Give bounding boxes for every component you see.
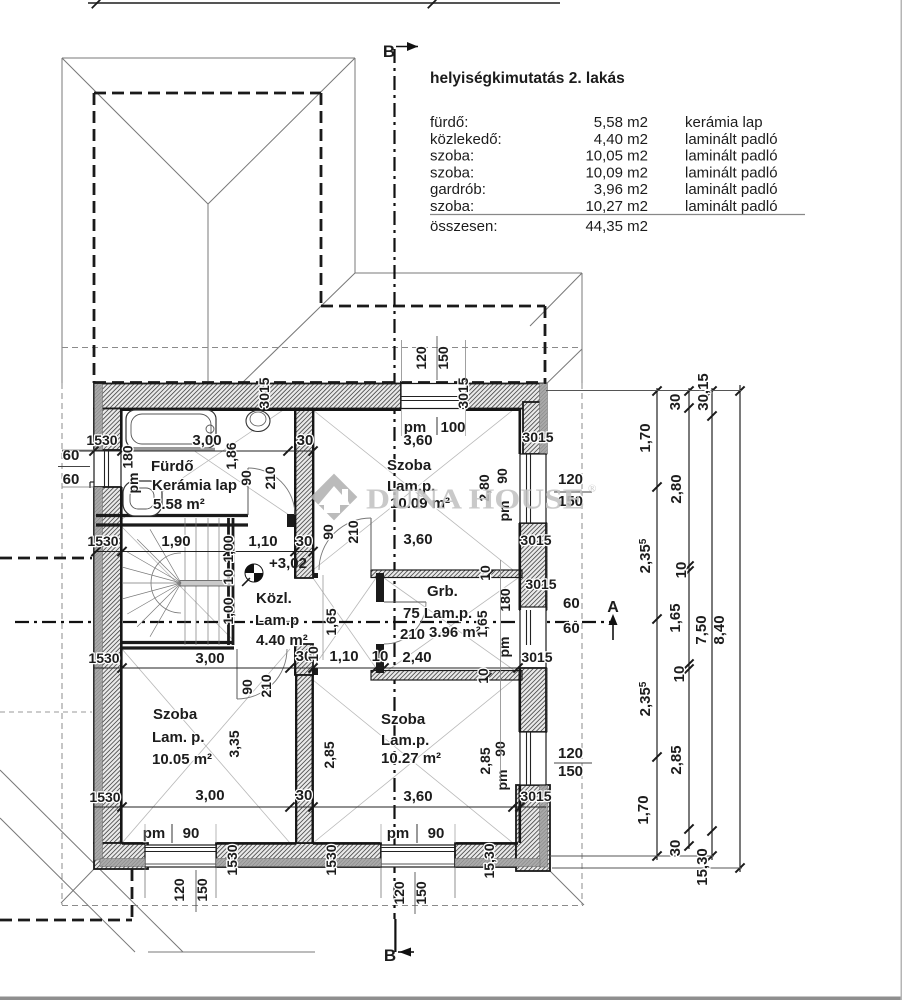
- lower-floor dashed outline along top wall: [94, 381, 546, 384]
- svg-text:pm: pm: [494, 770, 510, 791]
- dim 10 rotated wardrobe top: [477, 565, 494, 581]
- svg-text:4,40 m2: 4,40 m2: [594, 131, 648, 148]
- room label Grb: [403, 583, 481, 641]
- watermark diamond logo: [311, 474, 358, 521]
- svg-text:3,60: 3,60: [403, 432, 432, 449]
- outer wall left upper: [94, 409, 121, 451]
- interior wall corridor east lower piece: [295, 644, 313, 675]
- svg-text:15,30: 15,30: [481, 843, 497, 878]
- svg-text:3,60: 3,60: [403, 788, 432, 805]
- dim 120 150 rotated below window SW: [171, 870, 210, 912]
- svg-text:3015: 3015: [522, 429, 553, 445]
- svg-text:®: ®: [588, 483, 596, 495]
- left margin dashed line: [0, 711, 92, 713]
- interior wall jamb corridor SE: [313, 668, 318, 675]
- stairs with winders: [122, 518, 234, 645]
- section marker B bottom: [384, 919, 414, 965]
- svg-text:Kerámia lap: Kerámia lap: [152, 477, 237, 494]
- svg-text:Lam.p.: Lam.p.: [381, 732, 429, 749]
- roof hip SW corner diagonal: [61, 869, 94, 903]
- svg-text:10: 10: [220, 569, 236, 585]
- svg-text:3,00: 3,00: [195, 787, 224, 804]
- dim row4 texts: [89, 787, 551, 805]
- right scan edge: [901, 0, 902, 1000]
- svg-text:10.05 m²: 10.05 m²: [152, 751, 212, 768]
- dim line row1: [62, 446, 318, 455]
- svg-text:Szoba: Szoba: [381, 711, 426, 728]
- roof east wing right eave dashed: [581, 383, 583, 905]
- svg-text:2,85: 2,85: [321, 741, 337, 768]
- svg-text:150: 150: [558, 763, 583, 780]
- svg-text:5.58 m²: 5.58 m²: [153, 496, 205, 513]
- insulation strip bottom wall2: [100, 859, 540, 867]
- partition bathroom south double line: [96, 516, 248, 526]
- svg-text:1,65: 1,65: [667, 603, 684, 632]
- svg-text:90: 90: [492, 741, 508, 757]
- roof east wing top eave: [355, 272, 582, 274]
- svg-text:60: 60: [563, 595, 580, 612]
- dim row3 texts: [88, 648, 552, 667]
- wall inner face right: [518, 409, 521, 843]
- dim pm rotated bathroom: [125, 473, 141, 494]
- bathtub: [126, 410, 216, 450]
- svg-text:2,80: 2,80: [668, 474, 685, 503]
- svg-text:1,65: 1,65: [323, 608, 339, 635]
- wall faces bathroom east: [295, 409, 313, 579]
- svg-text:10,05 m2: 10,05 m2: [585, 148, 648, 165]
- section line A-A horizontal: [15, 621, 613, 623]
- window bottom SE (pm 90): [381, 845, 455, 867]
- svg-text:30: 30: [296, 533, 313, 550]
- outer wall bottom east segment: [455, 843, 516, 867]
- dim 3015 rotated top wall west: [256, 377, 272, 408]
- svg-text:3015: 3015: [455, 377, 471, 408]
- svg-text:1,86: 1,86: [223, 442, 239, 469]
- lower-floor dashed outline top-left: [94, 92, 321, 95]
- svg-text:1530: 1530: [87, 533, 118, 549]
- roof neighbour wing diagonal 2: [0, 818, 135, 952]
- svg-text:3,00: 3,00: [192, 432, 221, 449]
- roof ridge vertical: [207, 204, 209, 381]
- dim pm rotated window SE: [494, 770, 510, 791]
- svg-text:90: 90: [239, 679, 255, 695]
- dim 120 150 rotated above top window: [402, 336, 466, 382]
- window left (bathroom) opening: [90, 450, 121, 488]
- svg-text:10: 10: [671, 666, 688, 683]
- lower-floor dashed outline SW vertical: [131, 869, 134, 920]
- svg-text:180: 180: [497, 588, 513, 612]
- svg-text:60: 60: [63, 471, 80, 488]
- dim 90 210 door bathroom: [238, 466, 278, 490]
- partition jamb bath door east: [287, 514, 295, 527]
- svg-text:30: 30: [296, 787, 313, 804]
- insulation strip left wall: [95, 384, 103, 861]
- roof hip NW diagonal: [62, 58, 208, 204]
- svg-text:DUNA HOUSE: DUNA HOUSE: [366, 485, 585, 516]
- svg-text:2,85: 2,85: [477, 747, 493, 774]
- svg-text:Fürdő: Fürdő: [151, 458, 194, 475]
- washbasin: [123, 481, 162, 516]
- svg-text:laminált padló: laminált padló: [685, 148, 778, 165]
- svg-text:210: 210: [258, 674, 274, 698]
- chain C texts: [693, 373, 712, 886]
- svg-text:90: 90: [238, 470, 254, 486]
- svg-text:Szoba: Szoba: [153, 706, 198, 723]
- dim 1,65 rotated corridor: [323, 608, 339, 635]
- dim 1530 rotated bottom wall 3: [481, 843, 497, 878]
- partition wardrobe south: [371, 671, 522, 681]
- svg-text:1,65: 1,65: [474, 610, 490, 637]
- room label Fürdő: [151, 458, 237, 513]
- svg-text:1,10: 1,10: [329, 648, 358, 665]
- dim 90 rotated window SE: [492, 741, 508, 757]
- svg-text:laminált padló: laminált padló: [685, 198, 778, 215]
- outer wall NE corner pier: [523, 402, 546, 454]
- interior wall between bedrooms SW-SE: [296, 675, 313, 843]
- interior wall jamb corridor NE: [313, 573, 318, 578]
- wardrobe door jamb south: [376, 644, 384, 673]
- svg-text:7,50: 7,50: [693, 615, 710, 644]
- section line B-B vertical: [393, 49, 395, 919]
- roof bottom eave dashed: [62, 905, 583, 907]
- dim 2,85 rotated near right wall: [477, 747, 493, 774]
- svg-text:3015: 3015: [520, 532, 551, 548]
- dim 120 150 right NE: [554, 471, 592, 510]
- insulation strip right wall: [540, 384, 548, 868]
- svg-text:pm: pm: [125, 473, 141, 494]
- svg-text:1,90: 1,90: [161, 533, 190, 550]
- svg-text:5,58 m2: 5,58 m2: [594, 114, 648, 131]
- svg-text:120: 120: [413, 346, 429, 370]
- dim extension line wardrobe right: [500, 560, 502, 785]
- dim pm90 bottom east: [381, 824, 455, 843]
- dim pm rotated window NE: [496, 501, 512, 522]
- dim pm90 bottom west: [143, 824, 216, 843]
- svg-text:pm: pm: [143, 825, 166, 842]
- section marker B top: [383, 42, 418, 61]
- door bedroom SW swing: [237, 649, 287, 699]
- toilet: [246, 411, 270, 432]
- chain B texts: [667, 394, 690, 857]
- roof neighbour eave line bottom: [148, 951, 315, 953]
- svg-text:1,70: 1,70: [635, 795, 652, 824]
- dim 180 rotated bathtub: [120, 445, 136, 469]
- svg-text:1530: 1530: [224, 844, 240, 875]
- outer wall top west segment: [94, 384, 401, 409]
- svg-text:120: 120: [171, 878, 187, 902]
- dim 3,35 rotated bedroom SW: [226, 730, 242, 757]
- dim 1,65 rotated wardrobe: [474, 610, 490, 637]
- svg-text:1,10: 1,10: [248, 533, 277, 550]
- partition wardrobe north: [371, 570, 522, 578]
- lower-floor dashed outline left: [93, 93, 96, 383]
- chain A texts: [635, 423, 654, 824]
- outer wall right pier upper: [520, 523, 546, 610]
- outer wall SW corner: [94, 843, 148, 869]
- dim line row3: [94, 663, 546, 672]
- dim row1 window texts: [402, 409, 554, 449]
- room label Szoba NE: [387, 457, 450, 512]
- svg-text:2,40: 2,40: [402, 649, 431, 666]
- bottom scan edge: [0, 997, 902, 1000]
- wall faces corridor lower: [295, 644, 313, 675]
- svg-text:30: 30: [667, 840, 684, 857]
- wall inner face left: [120, 409, 123, 843]
- svg-text:3015: 3015: [525, 576, 556, 592]
- svg-text:44,35 m2: 44,35 m2: [585, 218, 648, 235]
- roof line through bedroom NE: [313, 410, 513, 570]
- svg-text:helyiségkimutatás 2. lakás: helyiségkimutatás 2. lakás: [430, 70, 625, 87]
- svg-text:1,70: 1,70: [637, 423, 654, 452]
- svg-text:8,40: 8,40: [711, 615, 728, 644]
- svg-text:laminált padló: laminált padló: [685, 131, 778, 148]
- room label Szoba SW: [152, 706, 212, 768]
- svg-text:10: 10: [372, 648, 389, 665]
- roof eave dashed horizontal: [62, 347, 582, 349]
- partition stair east double line: [229, 518, 234, 645]
- svg-text:120: 120: [391, 881, 407, 905]
- dim stair column 1,00 10 1,00: [220, 535, 236, 624]
- lower-floor dashed outline inner vertical: [320, 93, 323, 306]
- svg-text:közlekedő:: közlekedő:: [430, 131, 502, 148]
- dim 1530 rotated bottom wall 2: [323, 844, 339, 875]
- svg-text:kerámia lap: kerámia lap: [685, 114, 763, 131]
- roof line through bathroom: [122, 402, 295, 519]
- dim 3015 right wall middle: [525, 576, 556, 592]
- svg-text:3,35: 3,35: [226, 730, 242, 757]
- svg-text:Grb.: Grb.: [427, 583, 458, 600]
- outer wall SE corner block: [516, 785, 550, 871]
- door wardrobe swing: [384, 602, 426, 644]
- svg-text:4.40 m²: 4.40 m²: [256, 632, 308, 649]
- svg-text:3015: 3015: [520, 788, 551, 804]
- dim 60 60 left window: [58, 447, 94, 488]
- svg-text:90: 90: [320, 524, 336, 540]
- svg-text:3015: 3015: [256, 377, 272, 408]
- lower-floor dashed outline SW horizontal: [0, 919, 132, 922]
- svg-text:10,27 m2: 10,27 m2: [585, 198, 648, 215]
- svg-text:+3,02: +3,02: [269, 555, 307, 572]
- svg-text:210: 210: [262, 466, 278, 490]
- svg-text:3,60: 3,60: [403, 531, 432, 548]
- svg-text:3015: 3015: [521, 649, 552, 665]
- roof eaves outline upper-left wing: [62, 58, 355, 383]
- roof hip SE corner diagonal: [550, 871, 584, 905]
- svg-text:összesen:: összesen:: [430, 218, 498, 235]
- partition stair south double line: [122, 643, 234, 649]
- svg-text:10.27 m²: 10.27 m²: [381, 750, 441, 767]
- roof east wing right eave solid: [581, 273, 583, 383]
- lower-floor dashed outline right: [544, 306, 547, 383]
- dim 1,86 rotated bathroom: [223, 442, 239, 469]
- dim pm rotated window right: [496, 637, 512, 658]
- svg-text:3.96 m²: 3.96 m²: [429, 624, 481, 641]
- roof line through vestibule: [313, 578, 376, 668]
- dim 90 210 door bedroom NE: [320, 520, 361, 544]
- svg-text:180: 180: [120, 445, 136, 469]
- level mark +3,02: [242, 555, 323, 660]
- svg-text:laminált padló: laminált padló: [685, 164, 778, 181]
- chain D texts: [711, 615, 728, 644]
- outer wall bottom pier middle: [216, 843, 381, 867]
- svg-text:szoba:: szoba:: [430, 164, 474, 181]
- svg-text:szoba:: szoba:: [430, 198, 474, 215]
- svg-text:szoba:: szoba:: [430, 148, 474, 165]
- svg-text:30: 30: [667, 394, 684, 411]
- dim line row4: [94, 802, 546, 811]
- dim 2,85 rotated bedroom SE: [321, 741, 337, 768]
- svg-text:90: 90: [428, 825, 445, 842]
- wall inner face top: [120, 408, 520, 411]
- dim 90 210 door bedroom SW: [239, 674, 274, 698]
- svg-text:60: 60: [63, 447, 80, 464]
- jamb extension lines below bottom wall: [145, 867, 455, 898]
- svg-text:75 Lam.p.: 75 Lam.p.: [403, 605, 472, 622]
- svg-text:90: 90: [494, 468, 510, 484]
- lower-floor dashed outline west stub: [0, 557, 92, 560]
- roof line through bedroom SE: [313, 680, 513, 843]
- dim 10 rotated corridor door: [305, 646, 321, 662]
- dim 90 rotated window NE: [494, 468, 510, 484]
- roof hip SE of east wing: [538, 349, 582, 392]
- watermark DUNA HOUSE text: [366, 483, 596, 516]
- roof neighbour wing diagonal 1: [0, 770, 183, 952]
- svg-text:laminált padló: laminált padló: [685, 181, 778, 198]
- room label Közl: [255, 590, 308, 649]
- roof east wing vertical eave: [354, 58, 356, 273]
- svg-text:A: A: [607, 599, 619, 616]
- roof line through bedroom SW: [122, 649, 290, 843]
- window right SE (pm 90) opening: [520, 732, 546, 785]
- dim 3015 rotated top wall east: [455, 377, 471, 408]
- svg-text:gardrób:: gardrób:: [430, 181, 486, 198]
- svg-text:Közl.: Közl.: [256, 590, 292, 607]
- svg-text:10: 10: [305, 646, 321, 662]
- dim 60 60 right middle: [563, 595, 580, 637]
- svg-text:2,85: 2,85: [668, 745, 685, 774]
- window top (bedroom NE) opening: [401, 384, 466, 409]
- svg-text:Szoba: Szoba: [387, 457, 432, 474]
- window right NE (pm 90) opening: [520, 454, 546, 523]
- svg-text:210: 210: [400, 626, 425, 643]
- svg-text:120: 120: [558, 745, 583, 762]
- lower-floor dashed outline inner horizontal: [321, 305, 545, 308]
- svg-text:1530: 1530: [323, 844, 339, 875]
- door bedroom NE swing: [319, 518, 371, 570]
- svg-text:30,15: 30,15: [695, 373, 712, 411]
- dim row2 texts: [87, 531, 551, 550]
- dim 120 150 rotated below window SE: [391, 872, 429, 914]
- window bottom SW (pm 90): [145, 845, 216, 867]
- roof left eave dashed lower: [61, 383, 63, 905]
- door bathroom swing: [248, 468, 295, 515]
- svg-text:fürdő:: fürdő:: [430, 114, 468, 131]
- svg-text:1530: 1530: [86, 432, 117, 448]
- svg-text:3,00: 3,00: [195, 650, 224, 667]
- dim 210 horizontal wardrobe: [400, 626, 425, 643]
- dim row1 texts: [86, 432, 313, 449]
- room label Szoba SE: [381, 711, 441, 767]
- svg-text:Lam. p.: Lam. p.: [152, 729, 205, 746]
- svg-text:15,30: 15,30: [694, 848, 711, 886]
- dim 120 150 right SE: [554, 745, 592, 780]
- roof hip SW of east wing: [240, 273, 355, 385]
- svg-text:30: 30: [297, 432, 314, 449]
- svg-text:B: B: [384, 946, 396, 965]
- svg-text:3,96 m2: 3,96 m2: [594, 181, 648, 198]
- room schedule table: [430, 70, 805, 235]
- svg-text:10,09 m2: 10,09 m2: [585, 164, 648, 181]
- dim 2,80 rotated bedroom NE: [476, 474, 492, 501]
- dim line row2: [91, 547, 317, 556]
- outer wall left lower: [94, 487, 121, 843]
- svg-text:B: B: [383, 42, 395, 61]
- dim 1530 rotated bottom wall 1: [224, 844, 240, 875]
- svg-text:Lam.p: Lam.p: [255, 612, 299, 629]
- roof hip NE diagonal: [208, 58, 355, 204]
- section marker A: [607, 599, 619, 640]
- interior wall bathroom east: [295, 409, 313, 579]
- roof line through wardrobe: [384, 578, 518, 673]
- roof hip NE corner of east wing: [530, 273, 582, 326]
- roof line through stairwell: [122, 527, 234, 641]
- dim 10 rotated wardrobe bottom: [475, 668, 492, 684]
- svg-text:1,00: 1,00: [220, 535, 236, 562]
- svg-text:10: 10: [673, 562, 690, 579]
- svg-text:1,00: 1,00: [220, 597, 236, 624]
- svg-text:1530: 1530: [88, 650, 119, 666]
- svg-text:100: 100: [440, 419, 465, 436]
- svg-text:pm: pm: [387, 825, 410, 842]
- dimension chain lines right side: [546, 385, 745, 873]
- svg-text:60: 60: [563, 620, 580, 637]
- outer wall right pier lower: [520, 668, 546, 732]
- svg-text:1530: 1530: [89, 789, 120, 805]
- wall faces between bedrooms: [296, 675, 312, 843]
- wall inner face bottom: [122, 842, 518, 845]
- outer wall top east segment: [466, 384, 546, 409]
- svg-text:pm: pm: [496, 637, 512, 658]
- dim 180 rotated window right: [497, 588, 513, 612]
- wardrobe door jamb north: [376, 573, 384, 602]
- svg-text:90: 90: [183, 825, 200, 842]
- top cropped dimension line: [88, 0, 560, 8]
- svg-text:210: 210: [345, 520, 361, 544]
- window right small (60) opening: [520, 607, 546, 668]
